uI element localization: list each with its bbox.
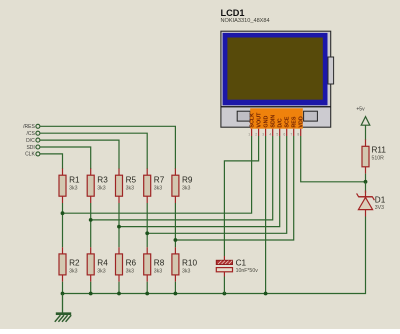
svg-text:3k3: 3k3 xyxy=(69,268,77,274)
svg-text:/RES: /RES xyxy=(23,124,35,130)
svg-text:R8: R8 xyxy=(154,258,165,267)
wire R4 bottom to ground rail xyxy=(90,282,92,294)
wire divider node 5 to LCD pin xyxy=(175,136,293,240)
capacitor C1 top plate (hatched) xyxy=(216,260,232,264)
svg-text:1: 1 xyxy=(248,132,250,136)
diode D1 anode pin xyxy=(365,210,367,217)
svg-text:SDIN: SDIN xyxy=(271,115,277,128)
LCD U-module outer body xyxy=(221,31,331,127)
wire /RES to column xyxy=(40,126,175,169)
wire C1 to rail xyxy=(223,277,225,294)
svg-text:2: 2 xyxy=(255,132,257,136)
LCD olive screen xyxy=(227,38,322,100)
rail junction xyxy=(174,292,178,296)
LCD pin 8 stub xyxy=(300,129,302,136)
resistor R11 body xyxy=(362,146,369,167)
svg-text:8: 8 xyxy=(297,132,299,136)
resistor R6 bottom pin xyxy=(118,275,120,282)
svg-text:R10: R10 xyxy=(182,258,197,267)
svg-text:4: 4 xyxy=(269,132,271,136)
resistor R6 top pin xyxy=(118,247,120,254)
rail junction xyxy=(223,292,227,296)
junction node 5 xyxy=(174,238,178,242)
svg-text:10nF*50v: 10nF*50v xyxy=(236,268,259,274)
svg-text:CLK: CLK xyxy=(25,152,35,158)
diode D1 cathode pin xyxy=(365,191,367,197)
terminal SDI circle xyxy=(36,145,40,149)
wire junction to R2 top xyxy=(62,213,64,247)
svg-text:3k3: 3k3 xyxy=(154,268,162,274)
wire D/C to column xyxy=(40,140,119,169)
LCD pin 3 stub xyxy=(265,129,267,136)
junction node 3 xyxy=(117,225,121,229)
LCD pin 1 stub xyxy=(251,129,253,136)
wire /CS to column xyxy=(40,133,147,169)
resistor R10 bottom pin xyxy=(174,275,176,282)
resistor R9 top pin xyxy=(174,169,176,176)
LCD pin 6 stub xyxy=(286,129,288,136)
wire LCD pin 3 to ground rail xyxy=(265,136,267,294)
svg-text:VDD: VDD xyxy=(299,116,305,127)
LCD right side tab xyxy=(328,57,334,84)
svg-text:R1: R1 xyxy=(69,175,80,184)
resistor R1 bottom pin xyxy=(62,196,64,203)
resistor R4 top pin xyxy=(90,247,92,254)
svg-text:3k3: 3k3 xyxy=(126,186,134,192)
resistor R2 bottom pin xyxy=(62,275,64,282)
terminal /RES circle xyxy=(36,124,40,128)
LCD pin 2 stub xyxy=(258,129,260,136)
LCD orange pin-header box xyxy=(250,108,303,128)
LCD pin 5 stub xyxy=(279,129,281,136)
svg-text:3k3: 3k3 xyxy=(97,186,105,192)
svg-text:D/C: D/C xyxy=(278,118,284,127)
svg-text:SDI: SDI xyxy=(26,145,34,151)
wire junction to R4 top xyxy=(90,220,92,247)
junction 3v3 node xyxy=(364,180,368,184)
wire R9 bottom to junction xyxy=(174,203,176,240)
LCD black divider line xyxy=(221,106,331,107)
resistor R9 bottom pin xyxy=(174,196,176,203)
svg-text:510R: 510R xyxy=(372,156,385,162)
svg-text:3k3: 3k3 xyxy=(126,268,134,274)
resistor R10 body xyxy=(172,254,179,275)
svg-text:R6: R6 xyxy=(126,258,137,267)
LCD pin 4 stub xyxy=(272,129,274,136)
rail junction xyxy=(145,292,149,296)
diode D1 anode triangle xyxy=(358,197,372,209)
resistor R2 body xyxy=(59,254,66,275)
svg-text:R4: R4 xyxy=(97,258,108,267)
resistor R8 bottom pin xyxy=(146,275,148,282)
svg-text:R7: R7 xyxy=(154,175,165,184)
resistor R8 top pin xyxy=(146,247,148,254)
resistor R1 body xyxy=(59,175,66,196)
resistor R3 body xyxy=(87,175,94,196)
wire R2 bottom to ground rail xyxy=(62,282,64,294)
svg-text:R2: R2 xyxy=(69,258,80,267)
svg-text:C1: C1 xyxy=(236,258,247,267)
wire junction to R6 top xyxy=(118,227,120,248)
svg-text:3: 3 xyxy=(262,132,264,136)
wire R8 bottom to ground rail xyxy=(146,282,148,294)
resistor R8 body xyxy=(144,254,151,275)
ground symbol xyxy=(55,314,71,322)
svg-text:NOKIA3310_48X84: NOKIA3310_48X84 xyxy=(221,18,270,24)
svg-text:3k3: 3k3 xyxy=(97,268,105,274)
svg-text:3k3: 3k3 xyxy=(154,186,162,192)
svg-text:3k3: 3k3 xyxy=(182,268,190,274)
svg-text:3k3: 3k3 xyxy=(182,186,190,192)
svg-text:SCE: SCE xyxy=(285,116,291,127)
LCD right contact block xyxy=(304,111,318,121)
svg-text:7: 7 xyxy=(290,132,292,136)
rail junction xyxy=(117,292,121,296)
LCD blue bezel xyxy=(223,33,328,105)
capacitor C1 top pin xyxy=(223,256,225,260)
svg-text:R11: R11 xyxy=(372,146,387,155)
svg-text:D1: D1 xyxy=(375,195,386,204)
svg-text:RES: RES xyxy=(292,116,298,127)
resistor R10 top pin xyxy=(174,247,176,254)
resistor R7 body xyxy=(144,175,151,196)
resistor R3 top pin xyxy=(90,169,92,176)
svg-text:R9: R9 xyxy=(182,175,193,184)
resistor R3 bottom pin xyxy=(90,196,92,203)
wire LCD pin 8 to 3v3 node xyxy=(301,136,366,182)
wire R7 bottom to junction xyxy=(146,203,148,233)
rail junction xyxy=(61,292,65,296)
wire CLK to column xyxy=(40,154,62,169)
wire R5 bottom to junction xyxy=(118,203,120,227)
wire +5v to R11 xyxy=(365,125,367,140)
capacitor C1 bottom plate xyxy=(216,268,232,272)
terminal CLK circle xyxy=(36,152,40,156)
resistor R7 bottom pin xyxy=(146,196,148,203)
wire SDI to column xyxy=(40,147,91,169)
diode D1 zener cathode bar xyxy=(357,193,375,200)
rail junction xyxy=(89,292,93,296)
resistor R4 body xyxy=(87,254,94,275)
wire R6 bottom to ground rail xyxy=(118,282,120,294)
svg-text:3V3: 3V3 xyxy=(375,205,384,211)
svg-text:VOUT: VOUT xyxy=(256,112,262,128)
junction node 1 xyxy=(61,211,65,215)
wire R11 to 3v3 node xyxy=(365,174,367,182)
svg-text:LCD1: LCD1 xyxy=(221,8,245,18)
svg-text:/CS: /CS xyxy=(26,131,35,137)
power terminal +5v triangle xyxy=(361,117,370,126)
LCD left contact block xyxy=(237,111,250,121)
svg-text:+5v: +5v xyxy=(356,107,365,113)
resistor R6 body xyxy=(116,254,123,275)
svg-text:R3: R3 xyxy=(97,175,108,184)
junction node 2 xyxy=(89,218,93,222)
ground rail wire xyxy=(63,217,366,294)
wire divider node 3 to LCD pin xyxy=(119,136,280,227)
wire R10 bottom to ground rail xyxy=(174,282,176,294)
svg-text:6: 6 xyxy=(283,132,285,136)
resistor R5 top pin xyxy=(118,169,120,176)
terminal D/C circle xyxy=(36,138,40,142)
resistor R5 body xyxy=(116,175,123,196)
resistor R2 top pin xyxy=(62,247,64,254)
svg-text:D/C: D/C xyxy=(26,138,35,144)
resistor R5 bottom pin xyxy=(118,196,120,203)
terminal /CS circle xyxy=(36,131,40,135)
resistor R7 top pin xyxy=(146,169,148,176)
resistor R11 bottom pin xyxy=(365,167,367,174)
LCD pin 7 stub xyxy=(293,129,295,136)
wire divider node 1 to LCD pin xyxy=(63,136,252,213)
resistor R4 bottom pin xyxy=(90,275,92,282)
svg-text:3k3: 3k3 xyxy=(69,186,77,192)
svg-text:5: 5 xyxy=(276,132,278,136)
resistor R9 body xyxy=(172,175,179,196)
resistor R1 top pin xyxy=(62,169,64,176)
resistor R11 top pin xyxy=(365,140,367,147)
svg-text:SCLK: SCLK xyxy=(249,113,255,128)
rail junction xyxy=(264,292,268,296)
junction node 4 xyxy=(145,231,149,235)
wire R1 bottom to junction xyxy=(62,203,64,213)
wire divider node 2 to LCD pin xyxy=(91,136,273,220)
wire R3 bottom to junction xyxy=(90,203,92,220)
wire divider node 4 to LCD pin xyxy=(147,136,287,233)
wire junction to R10 top xyxy=(174,240,176,247)
wire junction to R8 top xyxy=(146,233,148,247)
wire LCD pin 2 to C1 xyxy=(224,136,258,256)
wire 3v3 node to D1 xyxy=(365,182,367,193)
svg-text:R5: R5 xyxy=(126,175,137,184)
svg-text:GND: GND xyxy=(263,116,269,128)
wire rail to ground symbol xyxy=(62,294,64,314)
capacitor C1 bottom pin xyxy=(223,272,225,277)
